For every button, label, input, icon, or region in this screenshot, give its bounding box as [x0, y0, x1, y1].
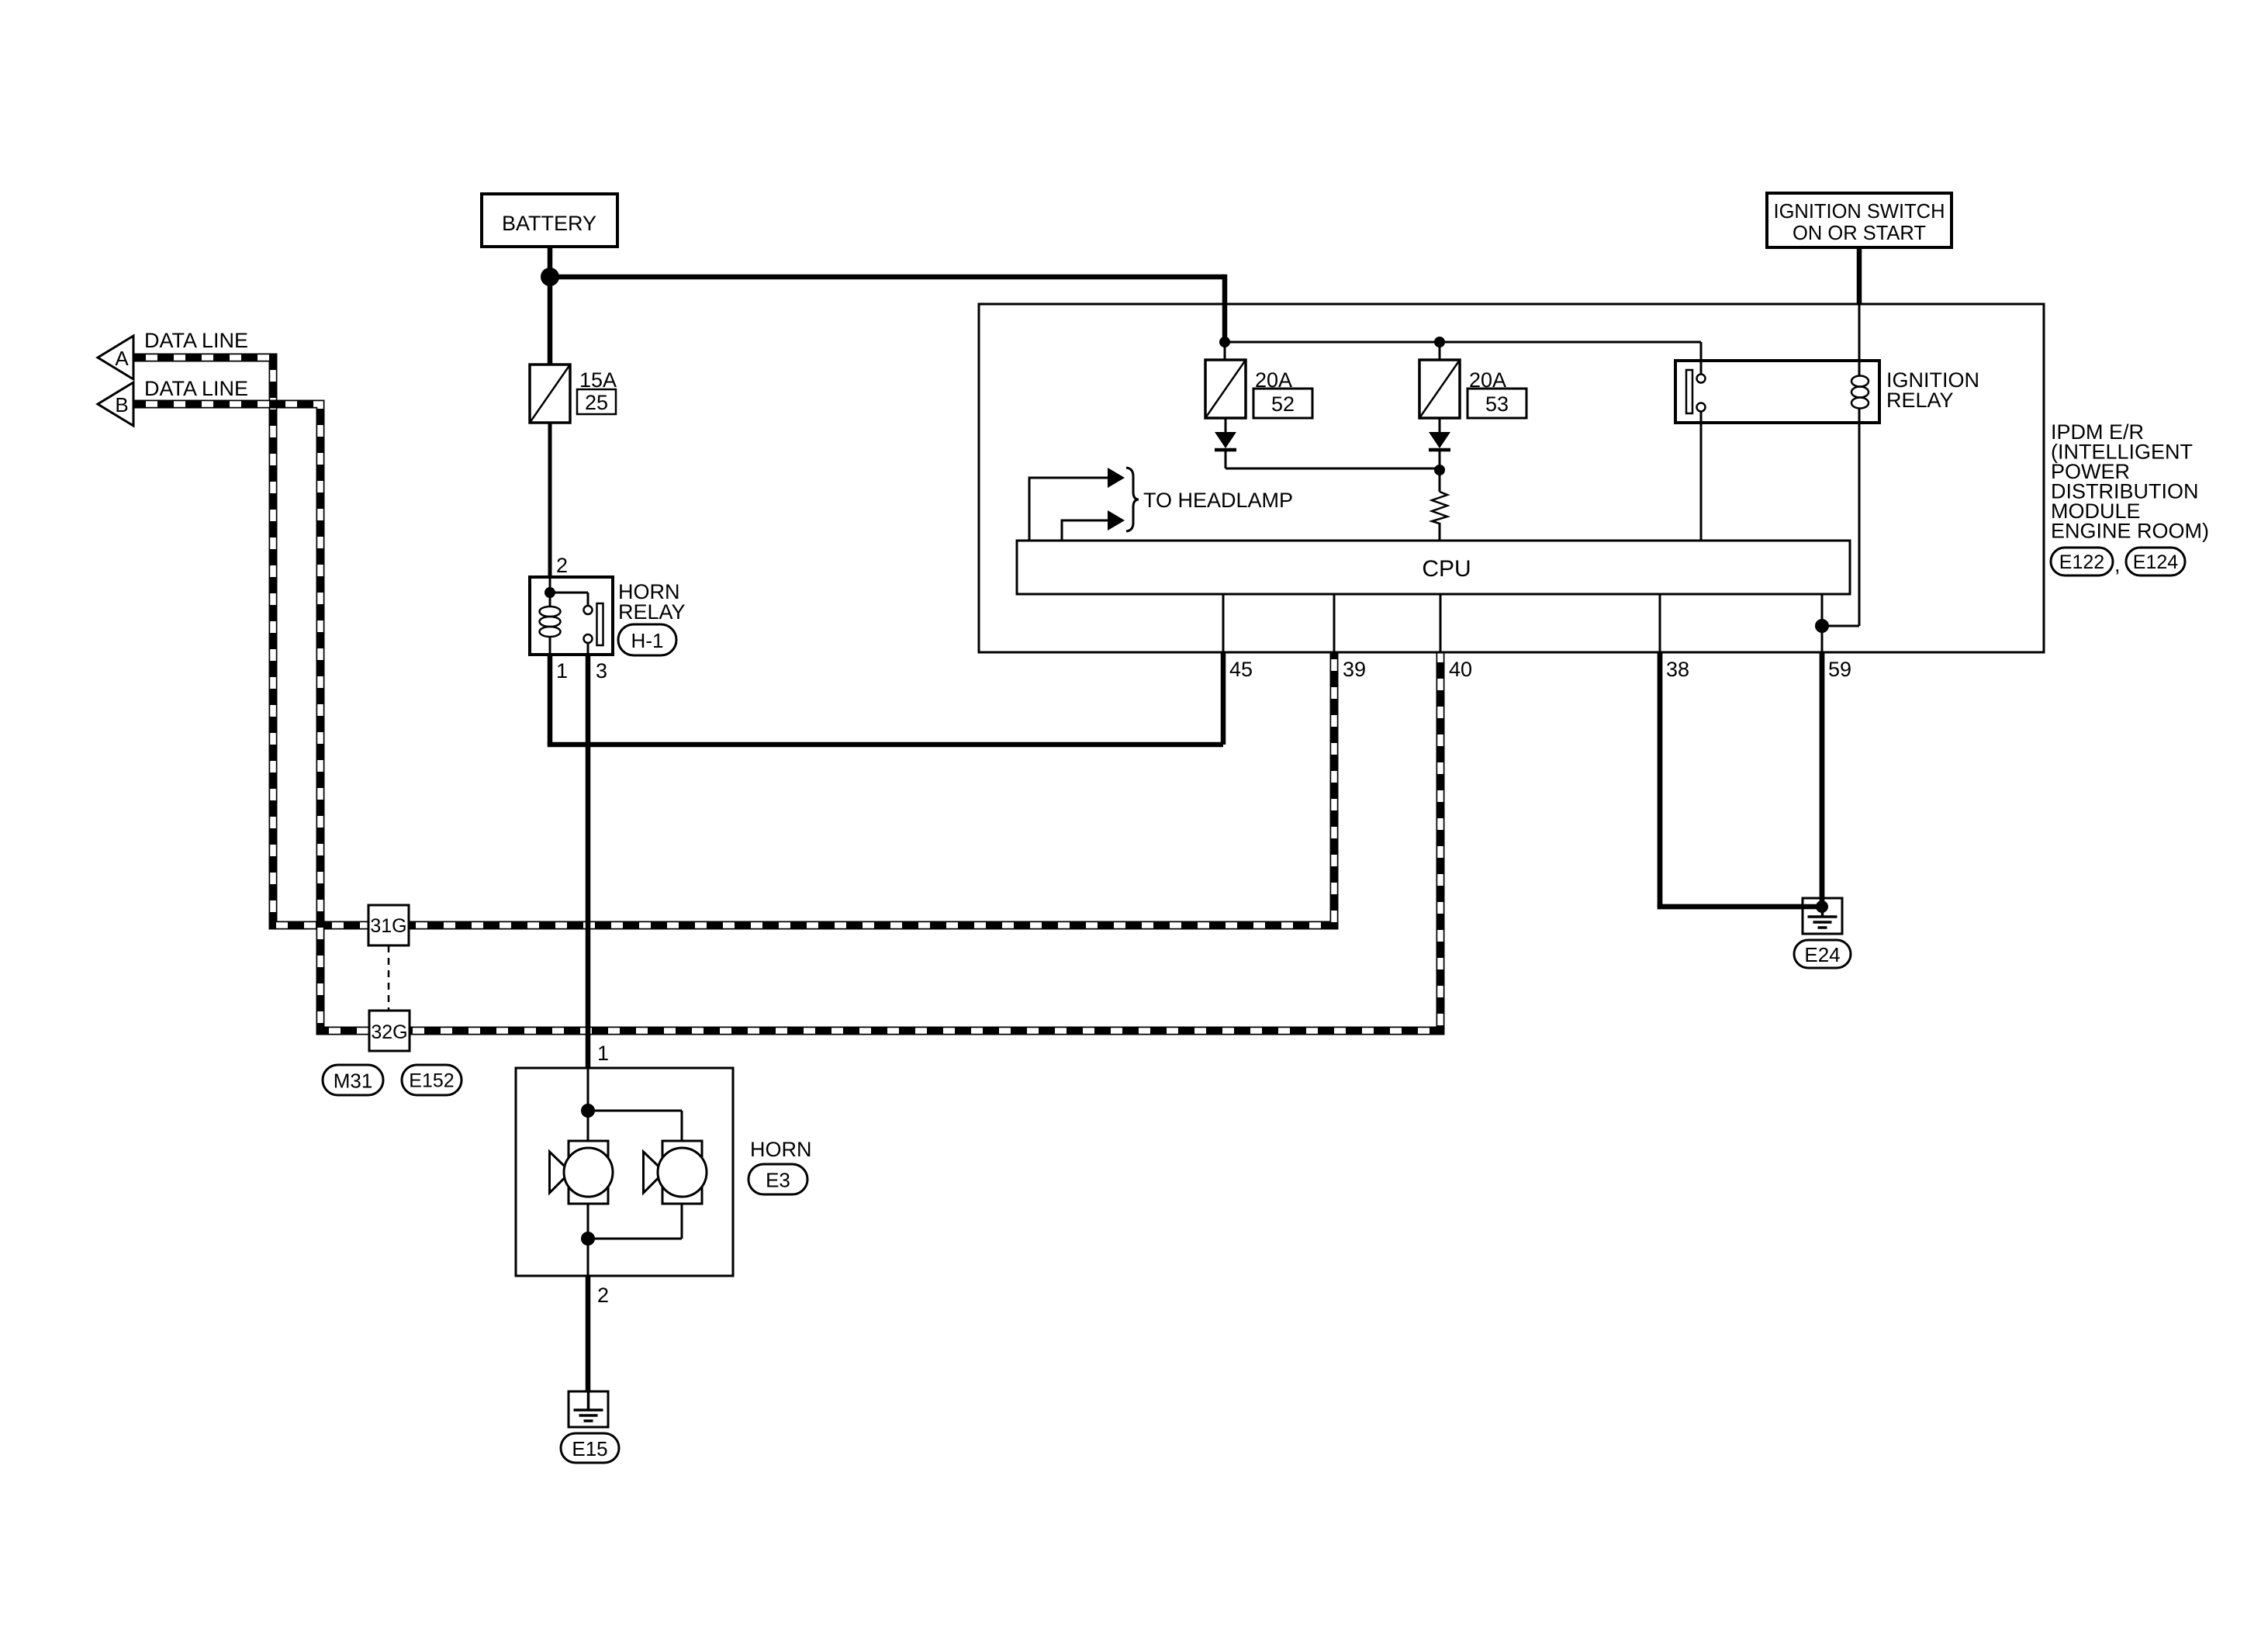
svg-text:E122: E122: [2059, 551, 2104, 573]
svg-text:20A: 20A: [1255, 368, 1292, 392]
svg-text:HORN: HORN: [750, 1138, 812, 1161]
svg-text:A: A: [115, 347, 129, 370]
svg-text:E152: E152: [409, 1070, 454, 1092]
svg-text:1: 1: [556, 659, 568, 683]
svg-text:RELAY: RELAY: [618, 600, 686, 624]
svg-text:1: 1: [597, 1042, 609, 1065]
svg-text:25: 25: [585, 391, 608, 414]
svg-text:DATA LINE: DATA LINE: [144, 329, 248, 352]
svg-text:RELAY: RELAY: [1886, 389, 1954, 412]
svg-text:H-1: H-1: [631, 629, 664, 652]
svg-text:2: 2: [597, 1284, 609, 1307]
svg-text:52: 52: [1271, 392, 1295, 416]
svg-text:CPU: CPU: [1422, 556, 1471, 582]
svg-text:45: 45: [1229, 658, 1253, 681]
svg-text:31G: 31G: [370, 915, 406, 937]
svg-text:DATA LINE: DATA LINE: [144, 377, 248, 400]
svg-text:20A: 20A: [1469, 368, 1506, 392]
svg-text:32G: 32G: [371, 1021, 407, 1043]
svg-text:39: 39: [1343, 658, 1366, 681]
svg-text:E15: E15: [572, 1437, 607, 1460]
svg-text:E124: E124: [2133, 551, 2178, 573]
svg-text:ON OR START: ON OR START: [1793, 223, 1926, 244]
svg-text:M31: M31: [334, 1070, 373, 1093]
svg-text:,: ,: [2114, 553, 2121, 576]
svg-text:BATTERY: BATTERY: [502, 212, 596, 235]
svg-text:ENGINE ROOM): ENGINE ROOM): [2051, 520, 2209, 543]
svg-text:IGNITION SWITCH: IGNITION SWITCH: [1774, 201, 1945, 223]
svg-text:3: 3: [596, 659, 607, 683]
svg-text:40: 40: [1449, 658, 1472, 681]
svg-text:53: 53: [1485, 392, 1509, 416]
svg-text:15A: 15A: [579, 368, 617, 392]
svg-text:2: 2: [556, 554, 568, 577]
svg-text:38: 38: [1666, 658, 1689, 681]
svg-text:B: B: [115, 393, 128, 416]
svg-text:E3: E3: [766, 1169, 790, 1192]
svg-text:E24: E24: [1804, 943, 1840, 966]
svg-text:59: 59: [1828, 658, 1851, 681]
svg-text:TO HEADLAMP: TO HEADLAMP: [1143, 489, 1293, 512]
